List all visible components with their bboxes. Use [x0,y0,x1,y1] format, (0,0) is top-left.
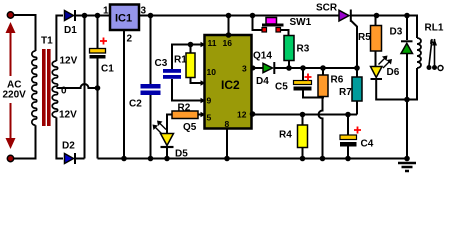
label D5 [175,149,188,160]
svg-text:D6: D6 [387,67,400,78]
svg-text:9: 9 [207,96,212,106]
pin nub 9 [201,98,206,103]
svg-text:11: 11 [208,38,217,48]
node pin16 rail [226,13,232,19]
capacitor C4 [340,115,361,159]
svg-text:10: 10 [207,67,217,77]
svg-text:R3: R3 [297,44,310,55]
label 12V top [60,56,78,67]
label Q14 [253,51,272,62]
node C1 top junction [95,13,101,19]
node R6 top [320,65,326,71]
wire D2 to rectifier vertical [75,158,85,160]
node ground rail C2 [148,156,154,162]
label R6 [331,75,344,86]
label IC2 pin 9 [207,96,212,106]
label D4 [256,76,269,87]
label R3 [297,44,310,55]
wire oscillator top (pin 11) [172,45,205,70]
diode D4 [263,62,274,74]
label IC1 pin 1 [103,6,109,17]
label D1 [64,25,77,36]
svg-text:SCR: SCR [316,3,338,14]
relay contact pole 2 [432,39,437,71]
pin nub 10 [201,80,206,85]
transformer T1 primary winding [32,51,37,125]
label IC1 pin 3 [141,6,147,17]
node R1 top [188,42,194,48]
svg-text:220V: 220V [3,90,27,101]
label T1 [41,36,53,47]
label IC2 pin 12 [237,110,247,120]
label IC2 pin 3 [242,64,247,74]
wire IC2 pin 16 riser [228,16,230,36]
node ground rail IC1 pin2 [121,156,127,162]
pin nub 5 [201,112,206,117]
label R7 [339,87,352,98]
node C4 top [345,112,351,118]
wire D4 to gate node [275,67,358,69]
svg-text:2: 2 [127,34,133,45]
diode D1 [65,10,76,21]
voltage regulator IC1 [110,5,139,31]
label IC2 pin 11 [208,38,217,48]
node pin16 box [226,32,232,38]
label D2 [62,141,75,152]
LED D6 [371,56,393,80]
label Q5 [183,122,197,133]
node ground rail D3 [404,156,410,162]
svg-text:IC1: IC1 [115,13,132,25]
svg-text:R7: R7 [339,87,352,98]
wire secondary top to D1 [56,16,63,62]
wire rectifier vertical x=84.5 [84,16,86,159]
svg-text:SW1: SW1 [290,17,312,28]
node R4 top [300,112,306,118]
wire secondary bottom to D2 [56,117,63,158]
label C3 [155,58,168,69]
label C5 [275,82,288,93]
capacitor C3 [163,69,205,101]
pin nub 12 [250,111,256,117]
wire ground rail [98,158,408,160]
svg-text:IC2: IC2 [221,78,240,92]
wire relay coil return [407,68,417,100]
label C4 [361,139,374,150]
node ground rail R6 [320,156,326,162]
wire IC2 pin12 run [252,114,358,116]
node R3 bottom [286,65,292,71]
label AC 220V [3,80,27,101]
svg-text:RL1: RL1 [425,23,444,34]
wire 0 tap with hopover [56,84,97,88]
capacitor C2 [141,16,161,159]
label 0 tap [60,84,69,97]
pin nub 11 [201,42,206,47]
svg-text:D1: D1 [64,25,77,36]
svg-text:C3: C3 [155,58,168,69]
node SW1 rail junction [250,13,256,19]
wire D1 to IC1 pin1 (top rail left) [75,15,110,17]
label D3 [390,27,403,38]
label IC1 pin 2 [127,34,133,45]
svg-text:1: 1 [103,6,109,17]
AC source arrow down [6,103,16,149]
transformer T1 core [42,49,51,126]
label C2 [129,99,142,110]
wire D6 to ground node [376,79,407,100]
svg-text:D2: D2 [62,141,75,152]
wire AC top to transformer primary [14,15,36,51]
node R5 top [374,13,380,19]
AC source terminal top [7,12,13,18]
relay contact open terminal [438,66,443,71]
svg-text:C5: C5 [275,82,288,93]
label SW1 [290,17,312,28]
diode D3 [401,16,413,159]
svg-text:3: 3 [242,64,247,74]
resistor R1 [186,45,205,84]
svg-text:C4: C4 [361,139,374,150]
wire IC1 pin 2 to ground rail [123,30,125,159]
IC2 timer chip [205,35,252,129]
wire R6 bottom to ground rail with hopover [319,98,323,159]
svg-text:12V: 12V [60,56,78,67]
svg-text:5: 5 [207,113,212,123]
label R4 [279,130,292,141]
svg-text:8: 8 [225,119,230,129]
capacitor C1 [90,16,108,159]
node ground rail IC2 pin8 [224,156,230,162]
pin nub 3 [251,66,256,71]
svg-text:R2: R2 [178,103,191,114]
LED D5 [153,121,174,159]
label SCR [316,3,338,14]
svg-text:R4: R4 [279,130,292,141]
pushbutton SW1 [262,18,284,33]
ground symbol [398,163,416,171]
wire IC2 pin3 to D4 [252,67,263,69]
wire SW1 to R3 [281,30,289,36]
svg-text:Q14: Q14 [253,51,272,62]
label IC2 pin 8 [225,119,230,129]
resistor R6 [318,68,328,99]
resistor R4 [298,115,308,159]
svg-text:T1: T1 [41,36,53,47]
label C1 [101,64,114,75]
svg-text:Q5: Q5 [183,122,197,133]
resistor R5 [371,16,382,67]
label 12V bottom [59,110,77,121]
node D3 bottom / D6 return [404,97,410,103]
node 0 tap to C1 line [95,85,101,91]
relay RL1 coil [417,38,421,68]
label IC2 pin 5 [207,113,212,123]
node C5 top [300,65,306,71]
resistor R7 [352,68,362,115]
label R1 [174,55,187,66]
capacitor C5 [294,68,323,98]
node ground rail R4 [300,156,306,162]
wire top rail IC1 to SCR [139,15,339,17]
svg-text:12: 12 [237,110,247,120]
node ground rail C4 [345,156,351,162]
label IC2 pin 10 [207,67,217,77]
svg-text:16: 16 [223,38,233,48]
resistor R2 [167,111,205,133]
wire top rail SCR to relay [351,15,418,17]
resistor R3 [284,36,294,68]
label R5 [358,32,371,43]
diode D2 [65,153,76,164]
thyristor SCR [339,10,357,69]
svg-text:D4: D4 [256,76,269,87]
svg-text:R6: R6 [331,75,344,86]
label IC2 pin 16 [223,38,233,48]
node IC1 output junction [148,13,154,19]
label R2 [178,103,191,114]
wire IC2 pin 8 to ground rail [226,129,228,159]
node gate junction [354,65,360,71]
node D3 top [404,13,410,19]
AC source arrow up [6,22,16,76]
svg-text:12V: 12V [59,110,77,121]
relay contact pole 1 [427,39,435,70]
svg-text:C2: C2 [129,99,142,110]
relay RL1 coil feed [416,16,418,39]
node rectifier output junction [82,13,88,19]
wire AC bottom to transformer primary [14,125,36,158]
svg-text:C1: C1 [101,64,114,75]
node ground rail D5 [164,156,170,162]
svg-text:R5: R5 [358,32,371,43]
AC source terminal bottom [7,155,13,161]
label RL1 [425,23,444,34]
svg-text:D3: D3 [390,27,403,38]
transformer T1 secondary winding [52,61,57,117]
svg-text:R1: R1 [174,55,187,66]
wire SW1 branch from rail [253,16,263,31]
label D6 [387,67,400,78]
